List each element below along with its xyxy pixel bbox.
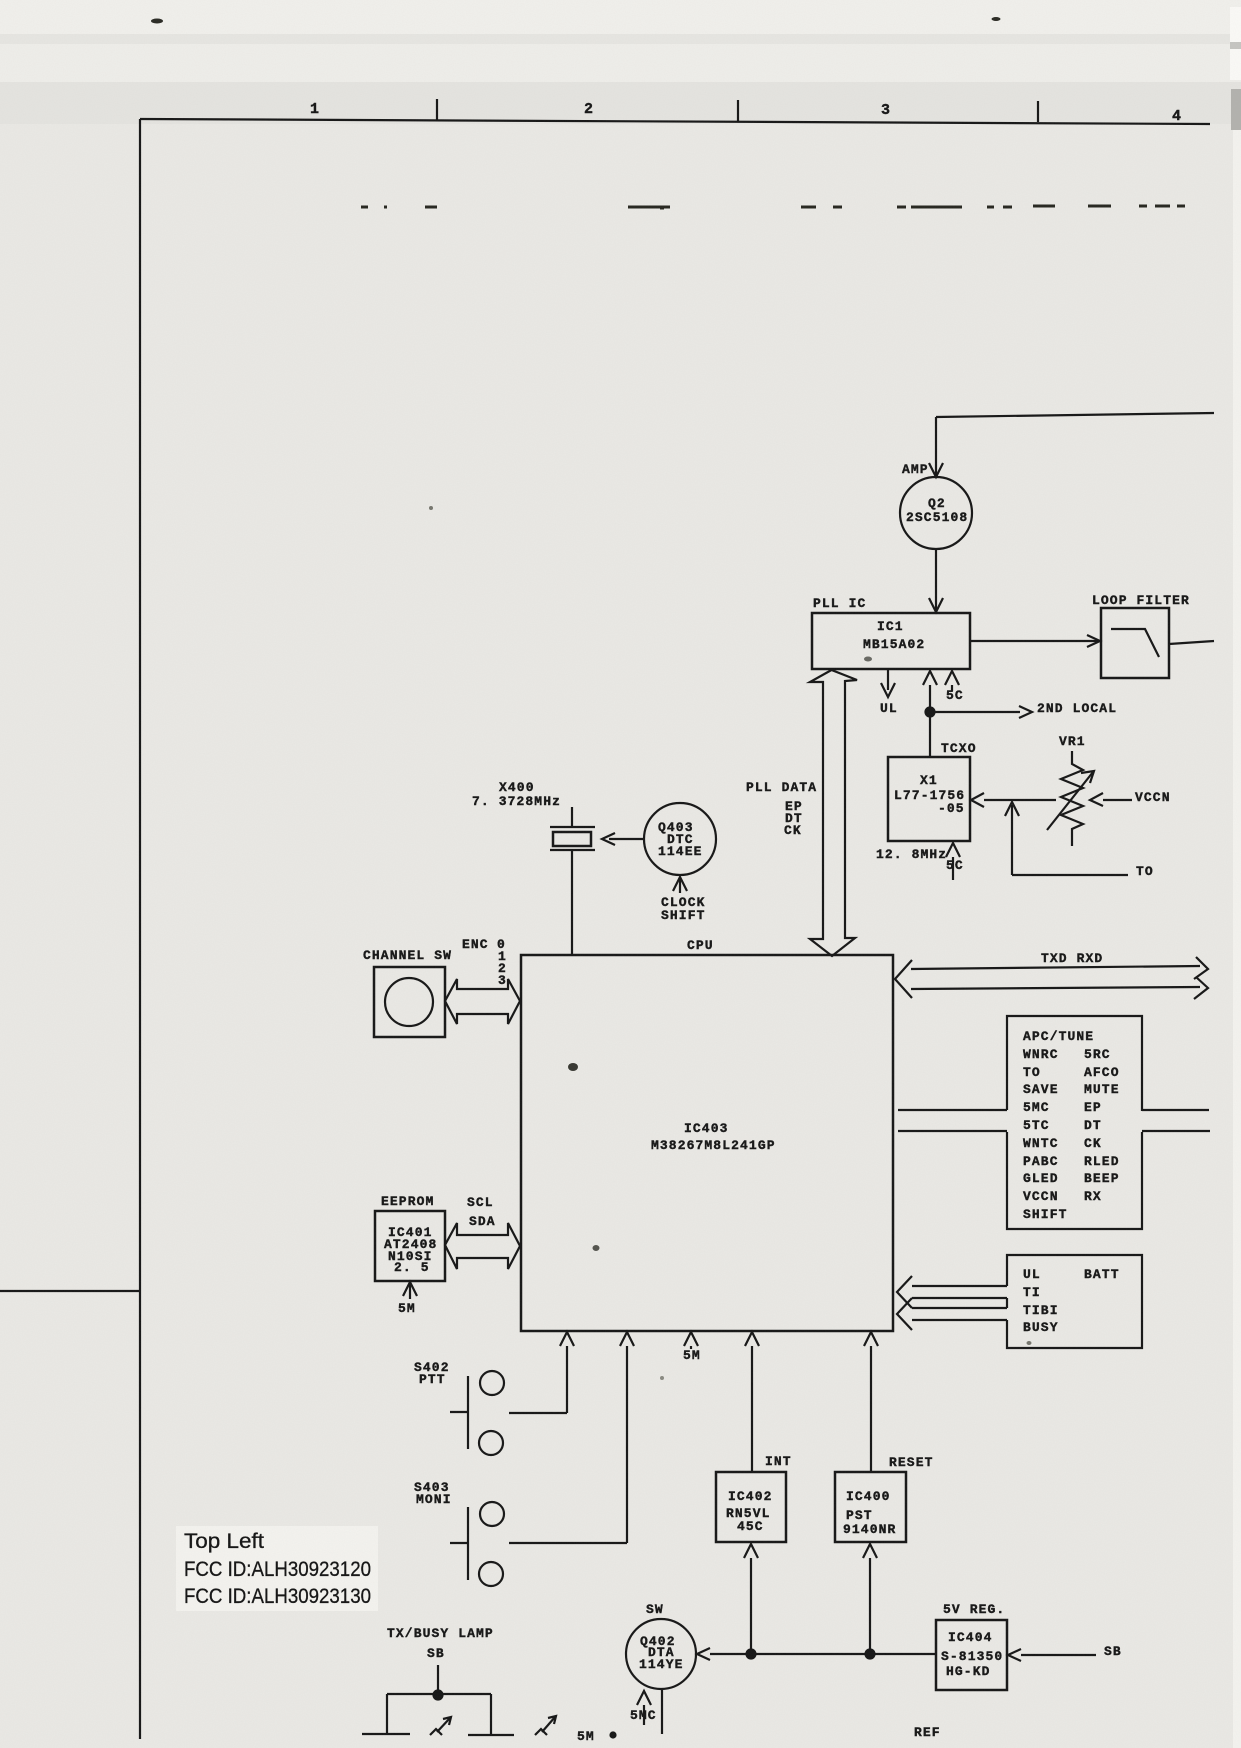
wire IC1 to X1 (923, 671, 937, 756)
reset IC400 box (835, 1472, 906, 1542)
wire Q403 to X400 (602, 833, 644, 845)
label SW (646, 1602, 664, 1617)
wire lamp bracket (387, 1694, 491, 1735)
SCL SDA bus arrow (445, 1223, 520, 1269)
loop filter block (1101, 608, 1169, 678)
node junction lamp (434, 1691, 443, 1700)
wire EP line (898, 1109, 1209, 1111)
op-amp U IC1 PLL IC box (812, 613, 970, 669)
label AMP (902, 462, 929, 477)
transistor Q402 (626, 1619, 696, 1689)
label RESET (889, 1455, 934, 1470)
transistor Q403 (644, 803, 716, 875)
label SCL SDA (467, 1195, 496, 1229)
label 12.8MHz (876, 847, 947, 862)
switch S403 (450, 1502, 504, 1586)
label LOOP FILTER (1092, 593, 1190, 608)
ENC bus arrow (445, 979, 520, 1024)
label TCXO (941, 741, 977, 756)
transistor Q2 (900, 477, 972, 549)
label CPU (687, 938, 714, 953)
TXD RXD bus wires (895, 957, 1208, 999)
switch S402 (450, 1371, 504, 1455)
node junction IC402 drive (747, 1650, 756, 1659)
label S402 PTT (414, 1360, 450, 1387)
5MC arrow into Q402 (630, 1691, 657, 1725)
label FCC ID sticker (176, 1526, 378, 1611)
wire into Q2 collector (929, 417, 943, 477)
wire VCC top rail (936, 413, 1214, 417)
VCCN input arrow (1090, 790, 1171, 806)
5M arrow into IC401 (398, 1282, 417, 1316)
label 5V REG. (943, 1602, 1005, 1617)
regulator IC404 box (936, 1620, 1007, 1690)
wire S402 to CPU (509, 1332, 574, 1413)
crystal oscillator X1 box (888, 757, 970, 841)
label PLL IC (813, 596, 866, 611)
wire SB lamp feed (437, 1665, 439, 1694)
label TX/BUSY LAMP (387, 1626, 494, 1661)
wire IC402 to CPU (745, 1332, 759, 1472)
wire Q402 base rail (697, 1648, 936, 1660)
wire VR1 wiper to X1 (971, 793, 1056, 807)
wire IC400 input (863, 1544, 877, 1654)
BUSY arrow to CPU (897, 1298, 1007, 1330)
microcontroller IC403 CPU box (521, 955, 893, 1331)
label PLL DATA (746, 780, 817, 838)
eeprom IC401 box (375, 1211, 445, 1281)
node junction IC1/X1/2nd local (926, 708, 935, 717)
wire X400 to CPU (571, 850, 573, 955)
LED D2 busy lamp (468, 1716, 556, 1735)
potentiometer VR1 (1047, 734, 1094, 846)
node junction IC400 drive (866, 1650, 875, 1659)
wire IC400 to CPU (864, 1332, 878, 1472)
wire Q402 emitter down (661, 1689, 663, 1734)
LED D1 tx lamp (362, 1717, 451, 1735)
wire S403 to CPU (509, 1332, 634, 1543)
label S403 MONI (414, 1480, 452, 1507)
PLL DATA bus arrow (810, 670, 857, 956)
wire 2ND LOCAL (930, 701, 1117, 718)
wire SB into IC404 (1008, 1644, 1122, 1661)
label 5M lamp (577, 1729, 616, 1744)
label REF (914, 1725, 941, 1740)
crystal X400 (472, 780, 595, 850)
UL arrow to CPU (897, 1276, 1007, 1308)
5C arrow into X1 bottom (946, 843, 964, 880)
wire Q2 to IC1 (929, 549, 943, 612)
label INT (765, 1454, 792, 1469)
wire DT line (898, 1130, 1210, 1132)
UL output arrow (880, 669, 898, 716)
channel switch (374, 967, 445, 1037)
5C arrow into IC1 (945, 671, 964, 703)
signal box UL BATT (1007, 1255, 1142, 1348)
5M arrow into CPU bottom (683, 1332, 701, 1363)
label EEPROM (381, 1194, 434, 1209)
label CHANNEL SW (363, 948, 452, 963)
wire TO line (1005, 802, 1154, 879)
signal box APC/TUNE (1007, 1016, 1142, 1229)
wire loop filter output (1169, 641, 1214, 644)
wire IC1 to loop filter (970, 635, 1100, 647)
label TXD RXD (1041, 951, 1103, 966)
label ENC 0 1 2 3 (462, 937, 507, 988)
wire IC402 input (744, 1544, 758, 1654)
CLOCK SHIFT arrow (661, 877, 706, 923)
reset IC402 box (716, 1472, 786, 1542)
